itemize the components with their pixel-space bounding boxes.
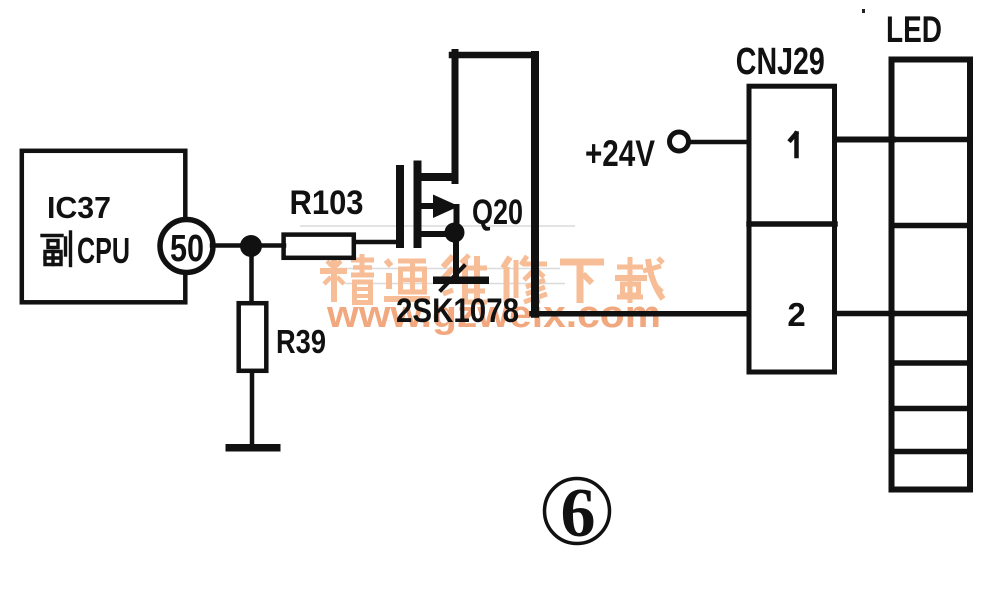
label 副 (CJK glyph of 副CPU) <box>42 232 71 266</box>
junction node dot <box>240 235 262 257</box>
terminal circle +24V <box>670 132 689 151</box>
speck <box>862 9 865 13</box>
ground diagonal stroke <box>441 266 464 290</box>
resistor R103 <box>284 235 354 258</box>
LED box <box>892 60 971 490</box>
svg-text:CPU: CPU <box>77 230 130 271</box>
svg-text:R103: R103 <box>290 184 364 222</box>
wire junction down to R39 <box>249 246 254 302</box>
connector CNJ29 box <box>749 86 835 372</box>
wire R103 to gate of Q20 <box>356 240 400 245</box>
LED divider 1 <box>893 137 969 143</box>
LED divider 5 <box>893 406 969 412</box>
watermark char 修 <box>503 256 547 303</box>
wire R39 to ground <box>250 373 255 447</box>
ground bar under Q20 <box>433 277 489 285</box>
svg-text:CNJ29: CNJ29 <box>736 41 825 83</box>
wire body arrow to source node <box>454 207 460 228</box>
transistor Q20 channel segment bottom <box>414 221 422 244</box>
LED divider 3 <box>893 311 969 317</box>
transistor Q20 channel segment middle <box>414 196 422 218</box>
watermark char 载 <box>615 257 663 303</box>
wire CNJ29 pin2 to LED <box>835 311 893 317</box>
wire drain vertical up <box>452 53 459 181</box>
wire terminal to CNJ29 pin1 <box>689 140 747 145</box>
figure number circle 6 <box>545 479 610 544</box>
source node dot <box>445 223 465 243</box>
wire loop top bar <box>452 52 535 59</box>
wire CNJ29 pin1 to LED <box>835 137 893 143</box>
wire source to ground <box>453 242 459 278</box>
svg-text:IC37: IC37 <box>47 190 111 225</box>
svg-text:2SK1078: 2SK1078 <box>396 292 519 330</box>
resistor R39 <box>239 303 267 371</box>
body arrow of Q20 <box>433 195 459 219</box>
source lead of Q20 <box>418 231 449 237</box>
body lead of Q20 <box>418 203 435 209</box>
drain lead of Q20 <box>418 173 453 181</box>
IC U-IC37 box <box>22 151 186 302</box>
wire loop bottom to CNJ29 pin2 <box>532 311 747 317</box>
LED divider 4 <box>893 360 969 366</box>
svg-text:R39: R39 <box>276 323 326 360</box>
watermark char 下 <box>560 262 604 303</box>
connector CNJ29 divider <box>749 221 835 227</box>
watermark char 通 <box>384 260 430 299</box>
transistor Q20 gate bar <box>396 169 404 244</box>
svg-text:6: 6 <box>561 475 596 552</box>
svg-text:Q20: Q20 <box>472 193 523 232</box>
watermark char 精 <box>320 254 374 303</box>
svg-text:LED: LED <box>886 9 942 50</box>
watermark char 维 <box>442 255 487 302</box>
LED divider 2 <box>893 223 969 229</box>
svg-text:50: 50 <box>170 228 204 270</box>
transistor Q20 channel segment top <box>414 165 422 190</box>
ground bar under R39 <box>226 444 281 452</box>
wire pin50 to R103 <box>212 243 284 248</box>
svg-text:+24V: +24V <box>585 133 655 174</box>
LED divider 6 <box>893 449 969 455</box>
pin label 1 <box>791 134 797 157</box>
wire loop right vertical <box>531 55 539 314</box>
svg-text:2: 2 <box>787 296 805 333</box>
pin 50 circle of IC37 <box>160 220 213 273</box>
